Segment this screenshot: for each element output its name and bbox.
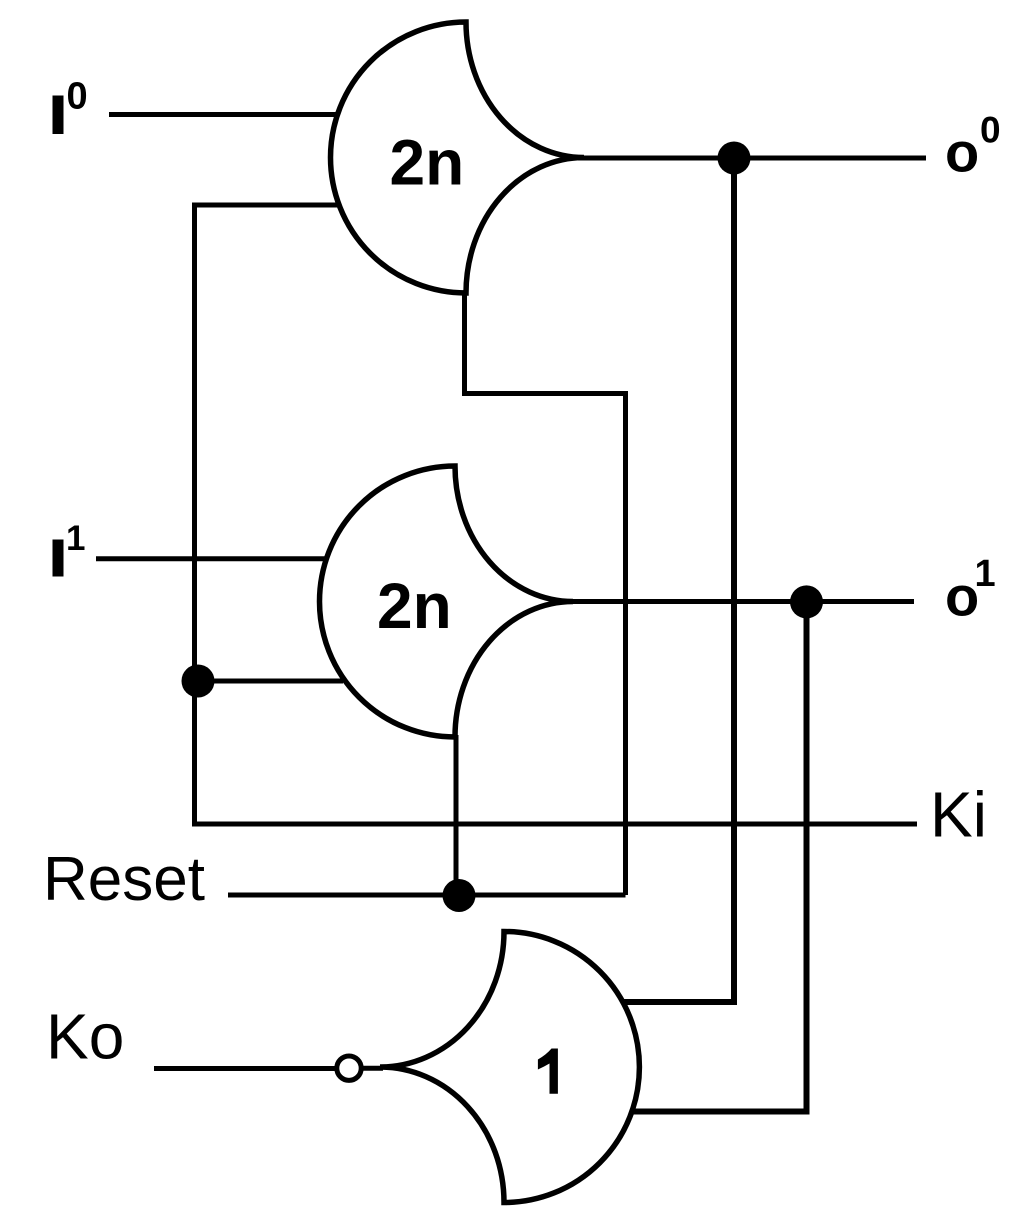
wire input I0 to gate U1 [109, 112, 337, 117]
svg-text:0: 0 [980, 110, 1001, 151]
wire Ko to inverter bubble [154, 1066, 335, 1071]
wire o1 feedback: vertical down from junction, into U3 lower input [632, 602, 807, 1112]
wire input I1 to gate U2 [96, 556, 327, 561]
value label 1 of U3 [538, 1049, 558, 1094]
wire o0 feedback: vertical down from junction, into U3 upper input [623, 158, 734, 1002]
gate U1 (2n cell, top) [331, 22, 585, 293]
wire output o0 from U1 tip to label [578, 156, 926, 161]
wire U1 bottom to Reset rail [465, 290, 626, 895]
svg-text:Ko: Ko [46, 1001, 124, 1073]
svg-text:0: 0 [67, 76, 88, 118]
label o0 [945, 110, 1001, 184]
junction dot on o0 line [718, 142, 751, 175]
svg-text:2n: 2n [390, 127, 465, 199]
wire output o1 from U2 tip to label [571, 599, 914, 604]
wire stub bubble to U3 tip [361, 1066, 383, 1071]
label o1 [945, 553, 996, 627]
wire branch from Ki trunk to U2 lower input [197, 679, 343, 684]
svg-text:o: o [945, 121, 979, 184]
wire Reset [228, 893, 626, 898]
label I1 [53, 519, 86, 577]
inverter bubble at Ko input of U3 [337, 1056, 361, 1080]
junction dot on Ki trunk [182, 665, 215, 698]
svg-text:Reset: Reset [43, 845, 205, 914]
svg-text:1: 1 [975, 553, 996, 595]
wire U2 bottom to Reset rail [454, 735, 459, 895]
svg-text:1: 1 [66, 519, 85, 558]
svg-text:Ki: Ki [930, 779, 987, 851]
wire Ki net: top corner into U1 lower input, vertical trunk, horizontal to Ki label [195, 205, 918, 824]
gate U3 (1 cell, bottom, mirrored) [380, 932, 639, 1203]
gate U2 (2n cell, middle) [320, 466, 574, 737]
junction dot on o1 line [790, 585, 823, 618]
label I0 [53, 76, 88, 135]
junction dot on Reset rail [443, 879, 476, 912]
svg-text:2n: 2n [377, 570, 452, 642]
